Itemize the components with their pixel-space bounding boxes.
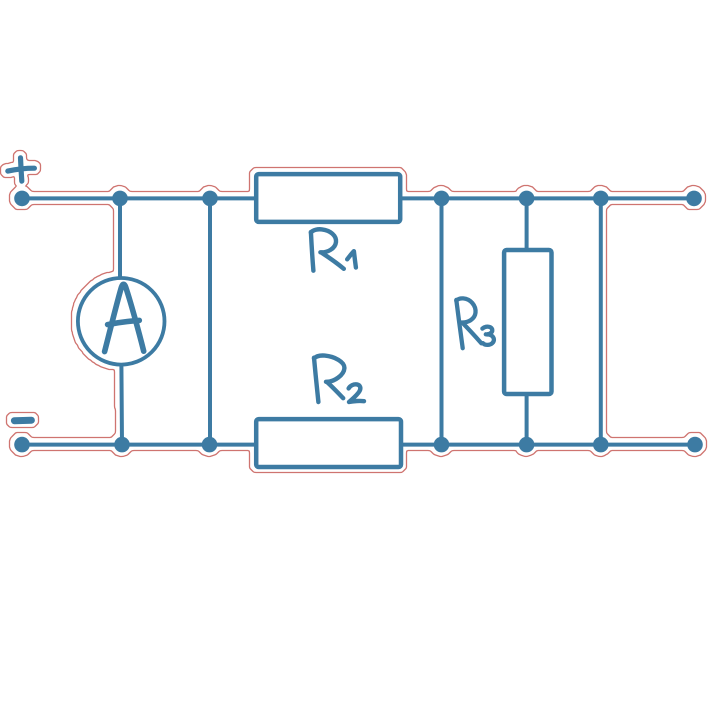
node dot bottom B xyxy=(202,437,218,453)
terminal + symbol xyxy=(8,158,35,181)
terminal - symbol xyxy=(14,417,31,425)
wire top rail left xyxy=(22,196,254,200)
node dot bottom terminal - xyxy=(14,437,30,453)
label R3 xyxy=(456,298,494,348)
node dot bottom A xyxy=(114,437,130,453)
label R1 xyxy=(311,229,356,270)
ammeter letter A xyxy=(105,284,144,351)
node dot top B xyxy=(202,191,218,207)
wire right branch at x601 xyxy=(599,198,603,444)
wire middle branch xyxy=(208,198,212,444)
resistor R3 xyxy=(504,250,551,394)
wire R3 top lead xyxy=(525,198,529,252)
node dot bottom D xyxy=(519,437,535,453)
wire bottom rail right xyxy=(403,443,695,447)
node dot top D xyxy=(519,191,535,207)
node dot top terminal + xyxy=(14,191,30,207)
node dot bottom E xyxy=(593,437,609,453)
wire bottom rail left xyxy=(22,443,254,447)
node dot bottom right terminal xyxy=(687,437,703,453)
sticker cut outline (red) xyxy=(1,151,707,473)
wire branch at x441 xyxy=(440,198,444,444)
wire ammeter branch upper xyxy=(118,198,122,278)
label R2 xyxy=(314,356,364,402)
node dot top C xyxy=(434,191,450,207)
node dot top A xyxy=(112,191,128,207)
resistor R2 xyxy=(256,419,401,467)
node dot bottom C xyxy=(434,437,450,453)
wire top rail right xyxy=(402,196,694,200)
resistor R1 xyxy=(256,174,400,222)
node dot top right terminal xyxy=(686,191,702,207)
wire ammeter branch lower xyxy=(119,365,124,445)
node dot top E xyxy=(593,191,609,207)
op-amp: none; ammeter meter A1 circle xyxy=(78,278,165,365)
wire R3 bottom lead xyxy=(525,392,529,445)
